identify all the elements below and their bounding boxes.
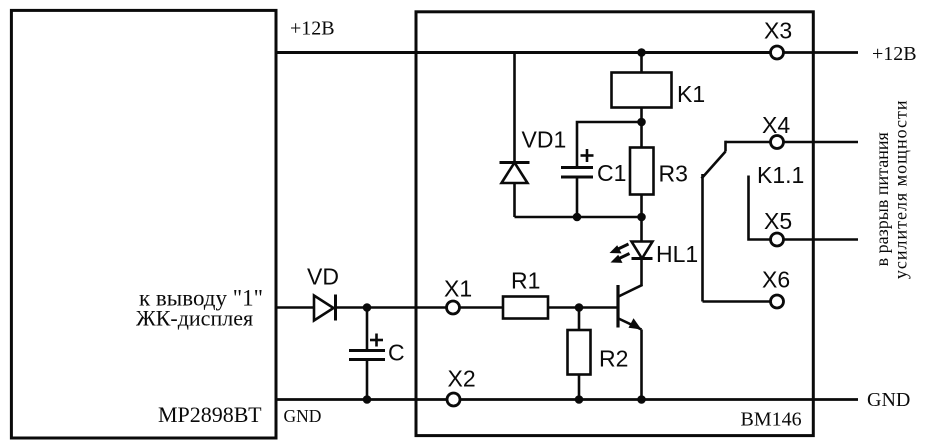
terminal X1	[447, 301, 460, 314]
svg-text:+12В: +12В	[290, 18, 335, 40]
wire bottom line VD1-C1-R3	[515, 216, 642, 219]
wire R3 top lead	[640, 122, 643, 148]
wire VD1 branch from rail	[513, 53, 516, 163]
block BM146 (right box)	[416, 12, 813, 436]
capacitor C	[349, 351, 385, 360]
wire junction to C1	[577, 122, 642, 167]
svg-text:X1: X1	[444, 276, 472, 302]
svg-text:VD1: VD1	[522, 127, 567, 153]
node junction emitter/GND	[637, 395, 646, 404]
wire R3 bottom lead to LED	[640, 195, 643, 242]
wire C top lead	[366, 308, 369, 351]
wire X4 right	[784, 141, 859, 144]
wire VD1 bottom lead	[513, 182, 516, 217]
svg-text:МР2898ВТ: МР2898ВТ	[158, 402, 262, 427]
svg-text:X2: X2	[448, 366, 476, 392]
wire contact pivot column	[701, 174, 704, 302]
svg-text:K1: K1	[677, 81, 705, 107]
node junction C/GND	[363, 395, 372, 404]
wire GND rail right segment	[460, 398, 858, 401]
terminal X4	[771, 136, 784, 149]
diode VD	[314, 295, 336, 321]
relay coil K1	[612, 73, 672, 108]
svg-text:X3: X3	[764, 18, 792, 44]
node junction rail/K1	[637, 48, 646, 57]
wire +12V rail left segment	[277, 51, 771, 54]
node junction base/R2	[575, 303, 584, 312]
wire R2 top lead	[578, 308, 581, 331]
wire C bottom lead	[366, 360, 369, 400]
wire X5 right	[784, 238, 859, 241]
plus sign of C1	[581, 149, 594, 162]
svg-text:GND: GND	[867, 389, 910, 411]
wire K1 top lead	[640, 53, 643, 73]
svg-text:HL1: HL1	[656, 241, 698, 267]
svg-text:K1.1: K1.1	[757, 162, 804, 188]
node junction R3/bottom line	[637, 213, 646, 222]
node junction VD/C	[363, 303, 372, 312]
wire emitter to GND	[640, 330, 643, 400]
wire K1 bottom lead	[640, 108, 643, 123]
wire from VD to X1	[336, 306, 447, 309]
svg-text:C: C	[388, 340, 405, 366]
diode VD1	[500, 163, 530, 184]
svg-text:C1: C1	[597, 160, 626, 186]
relay contact K1.1 arm	[702, 141, 726, 179]
svg-text:R3: R3	[659, 161, 688, 187]
wire HL1 cathode to collector	[640, 259, 643, 286]
terminal X6	[771, 295, 784, 308]
svg-text:в разрыв питания: в разрыв питания	[872, 132, 892, 266]
wire X5 column	[749, 176, 771, 240]
plus sign of C	[370, 334, 383, 347]
svg-text:X5: X5	[764, 208, 792, 234]
wire C1 bottom lead	[576, 177, 579, 217]
terminal X2	[447, 393, 460, 406]
block MP2898BT (left box)	[11, 10, 276, 438]
svg-text:R2: R2	[599, 346, 628, 372]
svg-text:R1: R1	[511, 268, 540, 294]
svg-text:ВМ146: ВМ146	[741, 409, 802, 431]
svg-text:VD: VD	[307, 264, 339, 290]
wire GND rail left segment	[277, 398, 447, 401]
svg-text:X6: X6	[762, 267, 790, 293]
LED HL1	[632, 242, 653, 259]
resistor R2	[568, 330, 591, 375]
wire R2 bottom lead	[578, 375, 581, 400]
svg-text:+12В: +12В	[872, 43, 917, 65]
transistor VT base bar	[616, 285, 619, 328]
resistor R1	[503, 297, 548, 319]
svg-text:усилителя мощности: усилителя мощности	[891, 99, 911, 279]
LED arrow 2	[611, 254, 630, 263]
svg-text:GND: GND	[284, 406, 322, 426]
wire to X6	[703, 300, 771, 303]
transistor emitter lead with arrow	[619, 318, 642, 329]
resistor R3	[630, 148, 654, 195]
wire R1 to transistor base	[548, 306, 618, 309]
transistor collector lead	[619, 285, 643, 297]
wire X1 to R1	[460, 306, 504, 309]
node junction C1/bottom line	[573, 213, 582, 222]
terminal X5	[771, 233, 784, 246]
wire from left box to diode VD	[277, 306, 314, 309]
node junction K1/R3/C1	[637, 118, 646, 127]
wire X4 left	[726, 141, 771, 144]
svg-text:ЖК-дисплея: ЖК-дисплея	[136, 306, 253, 331]
wire +12V rail right segment	[784, 51, 859, 54]
LED arrow 1	[610, 244, 629, 253]
svg-text:X4: X4	[762, 112, 790, 138]
capacitor C1	[561, 168, 593, 178]
node junction R2/GND	[575, 395, 584, 404]
terminal X3	[771, 46, 784, 59]
